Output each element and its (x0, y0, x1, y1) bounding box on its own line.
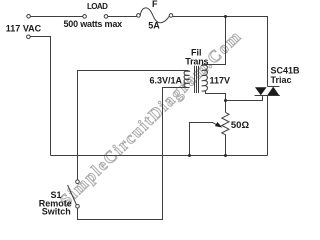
svg-text:117V: 117V (210, 76, 231, 86)
triac SC41B (255, 87, 280, 96)
transformer T1 secondary coil 117V winding (202, 65, 208, 92)
triac bottom bar (255, 95, 280, 97)
terminal: S1 bottom (76, 204, 80, 208)
node: junction dot on top rail (224, 15, 227, 18)
svg-text:6.3V/1A: 6.3V/1A (150, 76, 183, 86)
node: junction dot at gate/rheostat (224, 99, 227, 102)
svg-text:F: F (152, 0, 158, 9)
wire: top rail left segment (30, 16, 83, 18)
terminal: 117 VAC upper (27, 14, 31, 18)
rheostat wiper arrow (215, 123, 221, 128)
node: junction dot rheostat on bottom rail (224, 154, 227, 157)
watermark SimpleCircuitDiagram.Com (56, 26, 245, 210)
node: junction dot wiper on bottom rail (188, 154, 191, 157)
rheostat R 50 ohm zigzag (222, 112, 229, 136)
terminal: LOAD left (83, 15, 87, 19)
wire: 6.3V winding top to S1 branch (78, 71, 189, 181)
wire: 6.3V winding bottom loop via bottom wire (78, 88, 188, 220)
triac left triangle (255, 87, 267, 95)
terminal: fuse right (169, 14, 173, 18)
fuse F 5A (140, 8, 169, 23)
switch S1 blade (68, 185, 77, 205)
svg-text:5A: 5A (148, 21, 160, 31)
svg-text:500 watts max: 500 watts max (64, 19, 123, 29)
svg-text:LOAD: LOAD (87, 2, 108, 11)
wire: triac gate (226, 96, 263, 101)
wire: top rail between load and fuse (108, 16, 137, 18)
wire: right side below triac (267, 96, 269, 156)
svg-text:117 VAC: 117 VAC (6, 24, 42, 34)
wire: rheostat wiper branch (190, 123, 217, 156)
svg-text:Switch: Switch (42, 206, 71, 216)
transformer T1 primary coil 6.3V winding (184, 71, 190, 88)
wire: 117V winding bottom to gate node (206, 91, 226, 112)
terminal: LOAD right (104, 15, 108, 19)
svg-text:50Ω: 50Ω (231, 120, 250, 131)
wire: 117 VAC lower terminal to left vertical (30, 37, 50, 156)
wire: branch from top rail down to 117V winding top (206, 17, 226, 65)
transformer core lines (195, 66, 199, 93)
triac top bar (268, 86, 280, 88)
triac right triangle (267, 87, 279, 96)
terminal: fuse left (137, 14, 141, 18)
terminal: S1 top (76, 180, 80, 184)
wire: rheostat bottom lead (225, 137, 227, 156)
svg-text:Trans: Trans (185, 57, 208, 67)
wire: top rail from fuse to right corner (173, 17, 268, 87)
wire: bottom rail (51, 155, 268, 157)
terminal: 117 VAC lower (27, 35, 31, 39)
svg-text:Triac: Triac (271, 75, 292, 85)
